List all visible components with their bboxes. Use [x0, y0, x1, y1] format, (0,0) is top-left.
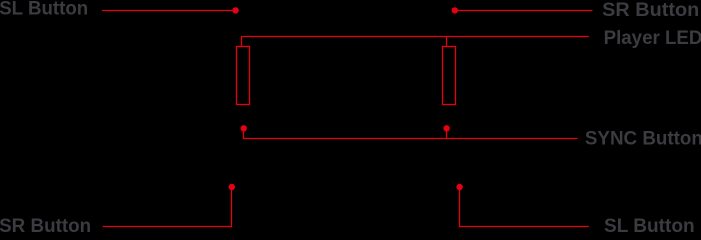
- svg-text:SL Button: SL Button: [0, 0, 88, 20]
- svg-text:SR Button: SR Button: [602, 0, 699, 21]
- svg-text:Player LED: Player LED: [604, 27, 701, 49]
- svg-text:SL Button: SL Button: [604, 215, 695, 235]
- svg-text:SR Button: SR Button: [0, 215, 91, 235]
- svg-text:SYNC Button: SYNC Button: [585, 128, 701, 150]
